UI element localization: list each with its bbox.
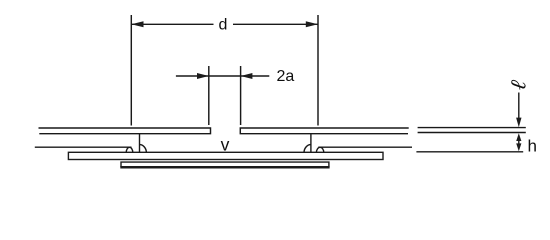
right quarter-arc connection [304, 145, 311, 153]
right crossover hump [316, 147, 323, 152]
left crossover hump [126, 147, 133, 152]
left feed lead wire [35, 146, 132, 148]
svg-text:2a: 2a [277, 68, 295, 85]
dimension h arrow shaft [518, 139, 520, 146]
dimension 2a left leader line [176, 75, 209, 77]
dimension 2a right extension line [240, 66, 242, 125]
lower plate bar B thick bottom edge [120, 166, 329, 169]
reference strip bottom line [418, 132, 526, 134]
dimension h down arrowhead [516, 143, 521, 151]
svg-text:ℓ: ℓ [505, 78, 531, 92]
dimension l arrow shaft [518, 93, 520, 119]
reference strip top line [418, 127, 526, 129]
dimension 2a right arrowhead [241, 73, 253, 79]
top strip right piece [240, 128, 408, 134]
dimension d right arrowhead [306, 21, 318, 27]
dimension h up arrowhead [516, 133, 521, 141]
dimension 2a right leader line [241, 75, 270, 77]
right vertical drop wire [310, 134, 312, 153]
dimension d left arrowhead [131, 21, 143, 27]
svg-text:h: h [528, 137, 537, 156]
dimension d right extension line [317, 15, 319, 126]
right feed lead wire [318, 146, 412, 148]
dimension l down arrowhead [516, 118, 521, 128]
lower plate bar B [121, 162, 329, 167]
svg-text:d: d [219, 17, 228, 34]
dimension d left extension line [130, 15, 132, 126]
dimension d line left segment [131, 23, 213, 25]
top strip left piece [39, 128, 211, 134]
dimension 2a left arrowhead [197, 73, 209, 79]
dimension 2a left extension line [208, 66, 210, 125]
left vertical drop wire [139, 134, 141, 153]
dimension 2a centre line [209, 75, 241, 77]
svg-text:v: v [221, 135, 230, 155]
left quarter-arc connection [140, 145, 147, 153]
dimension d line right segment [233, 23, 318, 25]
upper plate bar A [68, 152, 383, 159]
reference ground line [416, 151, 523, 153]
